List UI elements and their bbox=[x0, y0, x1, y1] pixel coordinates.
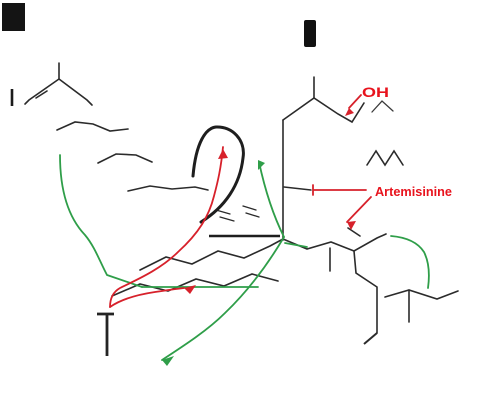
svg-text:Artemisinine: Artemisinine bbox=[375, 184, 452, 199]
svg-text:OH: OH bbox=[362, 84, 389, 100]
